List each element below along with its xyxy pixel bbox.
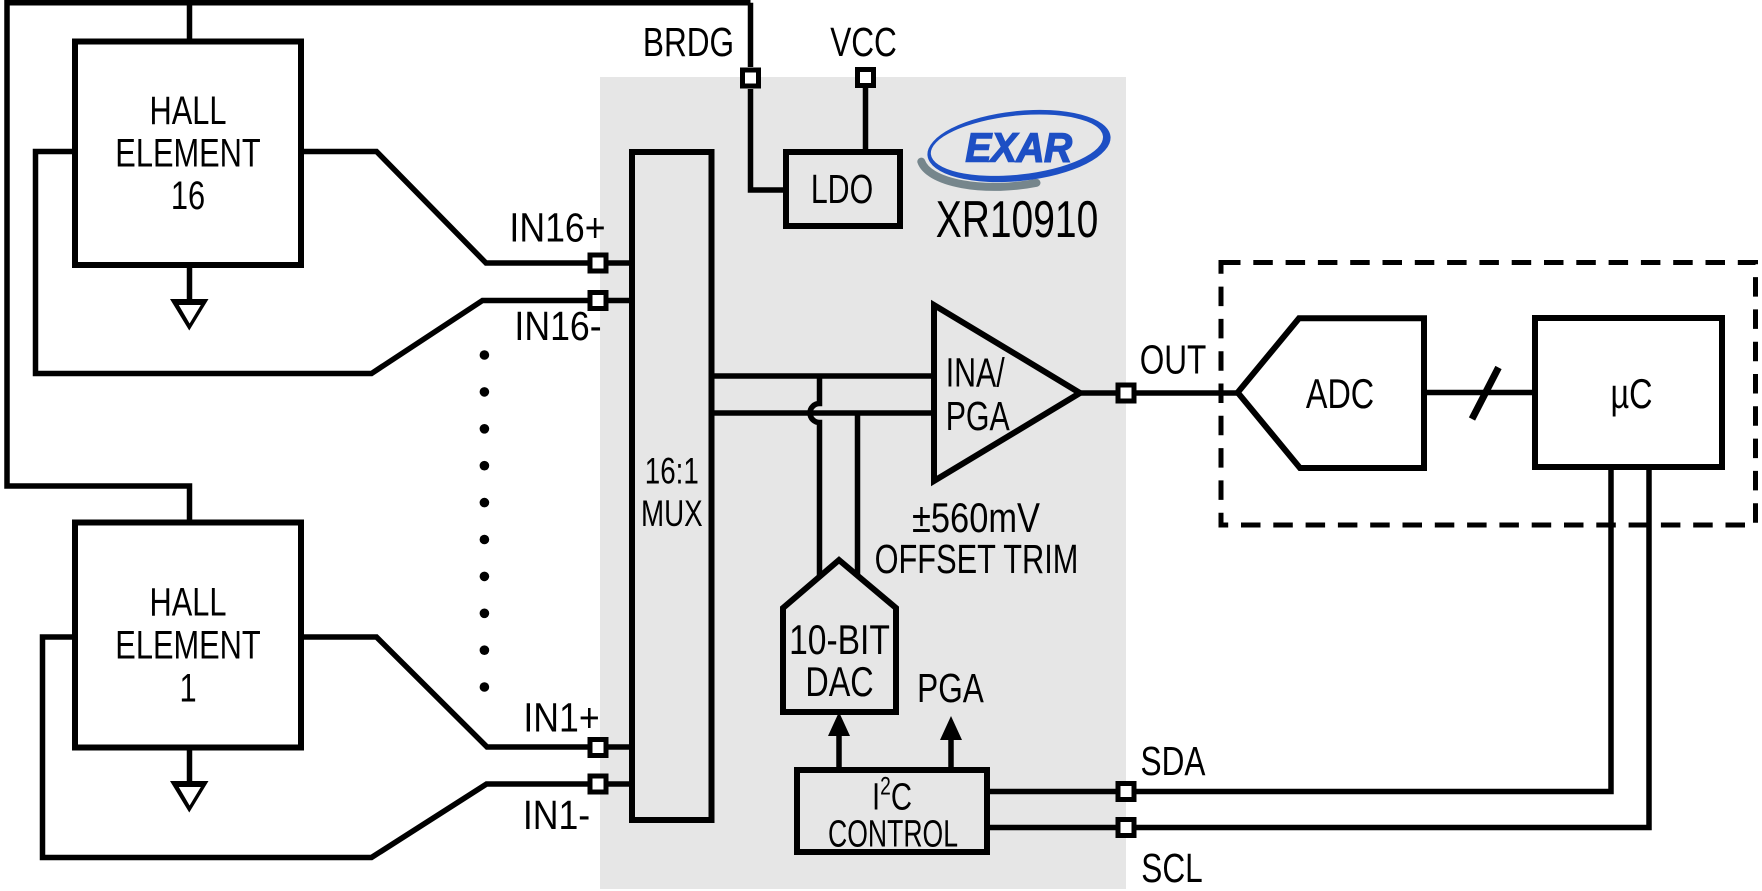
wire VCC pin to LDO <box>863 88 869 152</box>
ground (Hall 1) <box>170 748 209 813</box>
svg-text:DAC: DAC <box>805 658 873 705</box>
svg-text:PGA: PGA <box>917 665 984 711</box>
block 16:1 MUX <box>632 152 712 820</box>
label 16:1 MUX <box>641 450 703 534</box>
terminal IN16+ <box>590 255 606 271</box>
svg-text:IN16-: IN16- <box>514 304 601 350</box>
wire DAC right to lower input <box>855 413 861 576</box>
svg-text:ADC: ADC <box>1306 370 1374 417</box>
wire ADC to uC bus <box>1424 390 1535 396</box>
svg-text:OUT: OUT <box>1140 337 1207 383</box>
wire Hall16 out- to IN16- <box>36 152 633 374</box>
logo swoosh (gray) <box>921 154 1036 193</box>
wire SDA from I2C to uC <box>987 467 1611 792</box>
arrow I2C to PGA <box>940 716 962 768</box>
block LDO <box>786 152 900 226</box>
svg-text:VCC: VCC <box>830 19 897 65</box>
wire BRDG supply bus (top) <box>7 3 751 67</box>
svg-text:SDA: SDA <box>1141 738 1206 784</box>
ground (Hall 16) <box>170 265 209 331</box>
dashed enclosure (ADC + uC) <box>1221 263 1756 526</box>
label I2C CONTROL <box>828 772 958 854</box>
terminal BRDG <box>743 70 759 86</box>
terminal IN1+ <box>590 740 606 756</box>
svg-text:INA/: INA/ <box>946 349 1006 396</box>
svg-text:µC: µC <box>1611 370 1653 417</box>
block HALL ELEMENT 1 <box>75 523 301 748</box>
svg-text:IN1+: IN1+ <box>523 695 599 741</box>
label +-560mV OFFSET TRIM <box>875 495 1079 582</box>
block I2C CONTROL <box>797 770 987 852</box>
wire left supply drop to Hall 1 <box>7 0 190 523</box>
node dots (channel ellipsis) <box>480 350 490 692</box>
svg-text:OFFSET TRIM: OFFSET TRIM <box>875 536 1079 582</box>
svg-text:BRDG: BRDG <box>643 19 734 65</box>
wire DAC left to upper input (with hop over lower wire) <box>810 376 820 577</box>
terminal OUT <box>1118 385 1134 401</box>
block 10-BIT DAC <box>783 560 896 712</box>
label HALL ELEMENT 16 <box>115 88 260 218</box>
arrow I2C to DAC <box>828 712 850 768</box>
chip body XR10910 shaded region <box>600 77 1126 889</box>
svg-text:LDO: LDO <box>811 165 873 212</box>
label HALL ELEMENT 1 <box>115 580 260 711</box>
svg-text:SCL: SCL <box>1141 845 1202 891</box>
wire Hall1 out- to IN1- <box>43 637 633 858</box>
terminal SDA <box>1118 784 1134 800</box>
terminal IN16- <box>590 293 606 309</box>
wire BRDG pin to LDO <box>751 89 787 190</box>
block ADC <box>1238 318 1424 468</box>
wire Hall16 out+ to IN16+ <box>301 152 632 264</box>
logo ellipse ring (blue) <box>924 102 1114 191</box>
svg-text:ELEMENT: ELEMENT <box>115 131 260 176</box>
bus slash mark <box>1472 368 1499 420</box>
svg-text:16:1: 16:1 <box>645 450 699 492</box>
svg-text:IN1-: IN1- <box>523 793 590 839</box>
svg-text:CONTROL: CONTROL <box>828 812 958 855</box>
svg-text:IN16+: IN16+ <box>509 205 605 251</box>
block uC <box>1535 318 1722 467</box>
terminal VCC <box>858 70 874 86</box>
op-amp INA/PGA <box>934 305 1080 481</box>
wire MUX to INA lower input <box>712 410 935 416</box>
svg-text:16: 16 <box>171 173 205 218</box>
svg-text:PGA: PGA <box>946 392 1010 439</box>
wire INA output to OUT pin and ADC <box>1080 390 1238 396</box>
svg-text:HALL: HALL <box>149 88 226 133</box>
label INA/PGA <box>946 349 1010 439</box>
terminal IN1- <box>590 776 606 792</box>
terminal SCL <box>1118 820 1134 836</box>
wire MUX to INA upper input <box>712 373 935 379</box>
svg-text:EXAR: EXAR <box>965 126 1072 171</box>
svg-text:ELEMENT: ELEMENT <box>115 623 260 668</box>
block HALL ELEMENT 16 <box>75 42 301 266</box>
svg-text:HALL: HALL <box>149 580 226 625</box>
svg-text:XR10910: XR10910 <box>936 189 1099 248</box>
wire SCL from I2C to uC <box>987 467 1649 828</box>
label 10-BIT DAC <box>789 618 890 705</box>
svg-text:1: 1 <box>179 666 196 711</box>
EXAR logo <box>921 102 1114 193</box>
svg-text:MUX: MUX <box>641 492 703 534</box>
wire Hall1 out+ to IN1+ <box>301 637 632 747</box>
